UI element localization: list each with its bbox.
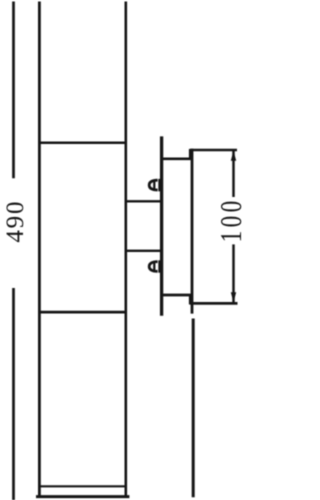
svg-text:490: 490 bbox=[2, 200, 29, 243]
svg-text:100: 100 bbox=[214, 197, 245, 242]
